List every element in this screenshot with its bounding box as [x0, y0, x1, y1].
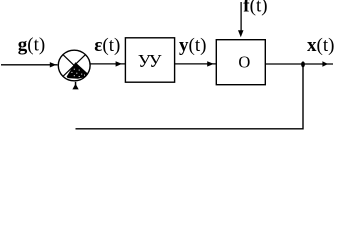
svg-text:ε(t): ε(t) [94, 35, 120, 56]
svg-text:f(t): f(t) [243, 0, 267, 17]
svg-text:g(t): g(t) [18, 34, 45, 55]
svg-text:y(t): y(t) [179, 35, 206, 56]
svg-text:x(t): x(t) [307, 35, 334, 56]
svg-text:УУ: УУ [138, 51, 162, 71]
svg-text:О: О [238, 52, 250, 71]
